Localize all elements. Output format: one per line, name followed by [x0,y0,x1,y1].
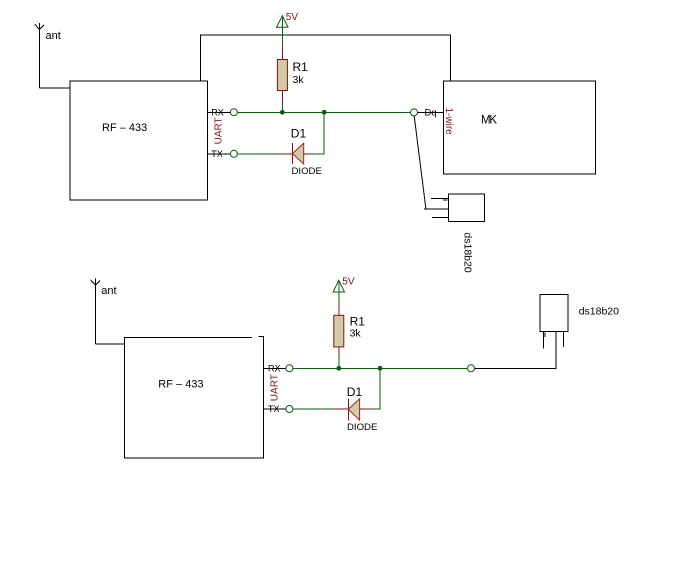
pin TX stub (top) [208,153,231,155]
wire circle to ds18b20 (bottom) [475,332,556,369]
wire top loop from RF-433 to MK [200,35,450,81]
sensor ds18b20 (bottom) [540,295,568,349]
diode D1 (top) [277,143,315,164]
svg-text:1-wire: 1-wire [443,108,454,136]
svg-text:R1: R1 [293,60,309,74]
svg-text:ant: ant [101,285,116,297]
wire antenna to RF-433 (top) [40,87,71,89]
wire RX net (bottom) [293,367,468,369]
pin RX stub (bottom) [264,367,287,369]
MCU module MK [444,81,596,174]
resistor R1 (bottom) [334,304,344,356]
svg-text:UART: UART [214,117,225,144]
svg-text:D1: D1 [347,385,363,399]
svg-text:MK: MK [481,115,497,127]
svg-text:ds18b20: ds18b20 [462,232,474,272]
diode D1 (bottom) [334,399,372,421]
wire Dq to ds18b20 (diagonal) [414,116,426,209]
svg-text:DIODE: DIODE [292,166,322,177]
svg-text:RX: RX [268,363,281,373]
junction at R1 bottom (top) [280,110,285,115]
svg-text:DIODE: DIODE [347,422,377,433]
resistor R1 (top) [277,46,287,104]
svg-text:ant: ant [46,30,61,42]
svg-text:ds18b20: ds18b20 [579,306,619,318]
svg-text:RF – 433: RF – 433 [102,122,147,134]
junction at R1 bottom (bottom) [336,366,341,371]
pin RX stub (top) [208,111,231,113]
wire RX net (top) [237,111,410,113]
svg-text:3k: 3k [350,327,362,339]
wire diode to junction (top) [315,112,325,154]
RF-433 module U2 (bottom) [125,337,264,458]
pin terminal circle Dq (top) [411,109,418,116]
sensor ds18b20 (top) [431,194,485,222]
antenna ANT2 (bottom) [91,279,100,345]
svg-text:Dq: Dq [425,108,437,119]
power symbol 5V (top) [277,16,288,46]
pin terminal circle TX (bottom) [286,406,293,413]
pin terminal circle RX (bottom) [286,365,293,372]
pin TX stub (bottom) [264,408,287,410]
pin terminal circle RX (top) [230,109,237,116]
pin Dq stub (top) [418,111,444,113]
wire TX to diode (top) [237,153,277,155]
wire antenna to RF-433 (bottom) [95,343,124,345]
svg-text:D1: D1 [291,127,307,141]
svg-text:TX: TX [268,404,280,414]
svg-text:5V: 5V [286,12,299,23]
svg-text:UART: UART [269,374,280,401]
junction at diode branch (top) [322,110,327,115]
svg-text:RF – 433: RF – 433 [158,379,203,391]
svg-text:5V: 5V [342,276,355,287]
wire R1 to RX net (top) [281,104,283,112]
RF-433 module U1 (top) [70,81,208,200]
junction at diode branch (bottom) [378,366,383,371]
wire diode to junction (bottom) [372,368,381,409]
wire TX to diode (bottom) [293,408,334,410]
svg-text:TX: TX [211,149,223,159]
antenna ANT1 (top) [35,23,44,88]
power symbol 5V (bottom) [333,280,344,304]
svg-text:RX: RX [211,107,224,117]
pin terminal circle TX (top) [230,150,237,157]
wire R1 to RX net (bottom) [338,356,340,368]
terminal circle on wire (bottom) [468,365,475,372]
svg-text:3k: 3k [293,74,305,86]
svg-text:R1: R1 [350,314,366,328]
